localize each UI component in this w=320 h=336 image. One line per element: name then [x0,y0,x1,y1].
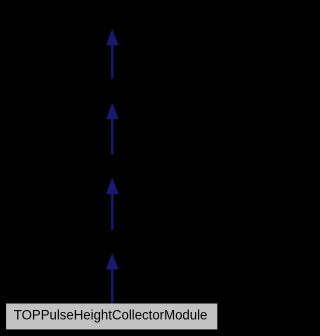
node label TOPPulseHeightCollectorModule [14,307,208,322]
svg-text:TOPPulseHeightCollectorModule: TOPPulseHeightCollectorModule [14,307,208,322]
inheritance arrow 4 (into TOPPulseHeightCollectorModule node) [106,254,118,303]
inheritance arrow 1 (topmost, to hidden base node) [106,30,118,79]
inheritance arrow 2 [106,104,118,154]
node TOPPulseHeightCollectorModule (box) [5,302,218,330]
inheritance arrow 3 [106,179,118,230]
